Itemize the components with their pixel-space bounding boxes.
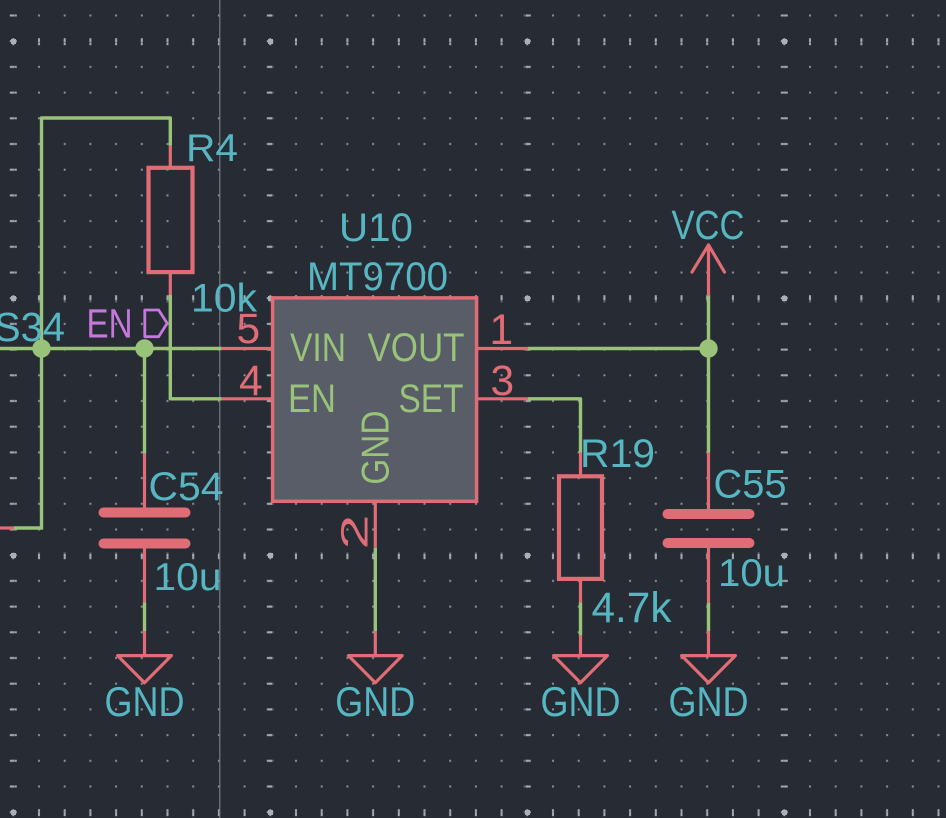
svg-text:MT9700: MT9700 [307, 255, 448, 299]
capacitor C54 [99, 454, 191, 603]
hier label EN pentagon [145, 310, 167, 337]
svg-text:C54: C54 [149, 465, 224, 509]
junction at left vertical [32, 339, 50, 357]
svg-text:VIN: VIN [290, 326, 346, 370]
svg-text:SET: SET [399, 377, 464, 421]
power symbol VCC [692, 245, 725, 295]
ground symbol under R19 [554, 635, 608, 682]
svg-text:10u: 10u [718, 552, 785, 595]
pin 5 VIN [222, 347, 273, 350]
wire: node up to VCC [707, 295, 710, 349]
pin 3 SET [476, 397, 528, 400]
sheet boundary line [219, 0, 221, 818]
svg-text:EN: EN [87, 301, 133, 347]
resistor R4 [149, 146, 193, 295]
wire: SET pin to R19 [528, 399, 581, 453]
junction at C54 branch [135, 339, 153, 357]
svg-text:GND: GND [541, 678, 621, 725]
ground symbol under C55 [682, 631, 736, 683]
svg-text:EN: EN [288, 377, 336, 421]
svg-text:VOUT: VOUT [368, 326, 465, 370]
ground symbol under U10 [348, 631, 402, 683]
pin 4 EN [222, 397, 273, 400]
wire: node down to C55 [707, 349, 710, 453]
svg-text:GND: GND [105, 678, 185, 725]
pin 2 GND [374, 501, 377, 548]
wire: bottom-left horizontal [14, 526, 42, 529]
svg-text:C55: C55 [714, 463, 787, 507]
wire: off-page stub bottom-left (red pin) [0, 526, 14, 529]
wire: U10 GND pin to GND [374, 548, 377, 631]
IC U10 body [273, 298, 477, 501]
svg-text:U10: U10 [339, 206, 413, 250]
wire: C55 bottom to GND [707, 603, 710, 631]
resistor R19 [559, 453, 602, 603]
svg-text:2: 2 [335, 515, 377, 550]
wire: main EN net horizontal [0, 347, 222, 350]
wire: VOUT to VCC node [528, 347, 709, 350]
wire: junction down to C54 [143, 349, 146, 454]
svg-text:4.7k: 4.7k [592, 584, 672, 632]
svg-text:VCC: VCC [672, 202, 745, 248]
wire: C54 bottom to GND [143, 603, 146, 632]
svg-text:R19: R19 [580, 432, 655, 476]
svg-text:GND: GND [355, 411, 398, 485]
svg-text:5: 5 [237, 306, 261, 353]
ground symbol under C54 [118, 631, 172, 683]
svg-text:10u: 10u [154, 556, 222, 599]
wire: R4 bottom to EN pin [170, 295, 222, 399]
svg-text:3: 3 [491, 358, 515, 405]
svg-text:GND: GND [335, 678, 415, 725]
svg-text:1: 1 [490, 307, 514, 354]
wire: R19 bottom to GND [579, 602, 582, 635]
svg-text:4: 4 [239, 358, 263, 405]
svg-text:S34: S34 [0, 304, 65, 350]
svg-text:GND: GND [669, 678, 749, 725]
wire: left vertical + top horizontal to R4 top [42, 118, 171, 530]
svg-text:R4: R4 [186, 127, 238, 170]
capacitor C55 [663, 453, 755, 604]
junction at VCC node [699, 339, 717, 357]
pin 1 VOUT [476, 347, 528, 350]
